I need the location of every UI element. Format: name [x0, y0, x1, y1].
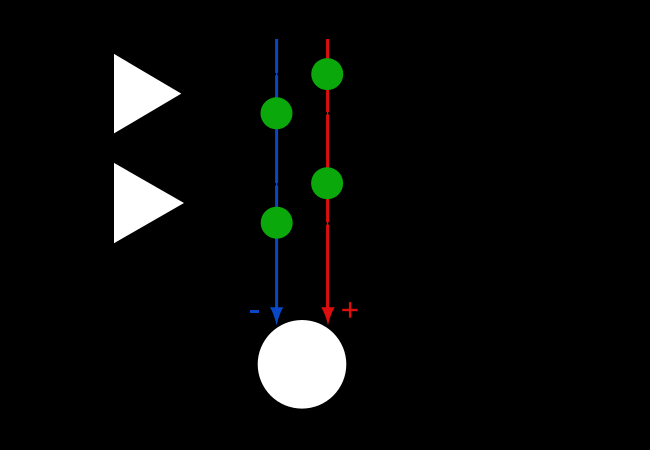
- wire segment (red, bottom): [326, 225, 329, 309]
- charge carrier (green, red line upper): [311, 58, 343, 90]
- wire segment (blue, top): [275, 39, 278, 73]
- wire (blue electron line, thin continuous core): [276, 39, 278, 309]
- label "+" (red plus): [342, 302, 357, 318]
- play triangle 1 (fast-forward upper): [114, 54, 181, 133]
- wire (red conventional-current line, thin continuous core): [327, 39, 329, 309]
- label "-" (blue minus): [250, 310, 259, 313]
- charge carrier (green, blue line lower): [261, 207, 293, 239]
- wire segment (red, top): [326, 39, 329, 112]
- play triangle 2 (fast-forward lower): [114, 163, 184, 243]
- charge carrier (green, red line lower): [311, 167, 343, 199]
- wire segment (red, middle): [326, 115, 329, 223]
- arrowhead (blue, points into sphere): [270, 307, 283, 325]
- sphere (white target circle): [258, 320, 347, 409]
- charge carrier (green, blue line upper): [261, 97, 293, 129]
- wire segment (blue, bottom): [275, 186, 278, 310]
- arrowhead (red, points into sphere): [321, 307, 335, 325]
- wire segment (blue, middle): [275, 75, 278, 183]
